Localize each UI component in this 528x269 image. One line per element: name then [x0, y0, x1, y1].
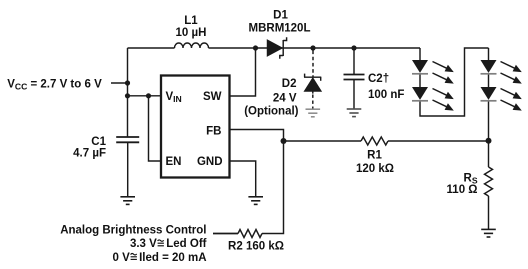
svg-text:GND: GND [197, 156, 223, 168]
LED D4 [412, 87, 428, 101]
resistor RS [485, 167, 493, 196]
node VCC tap [125, 80, 130, 85]
inductor L1 coil [175, 43, 209, 48]
wire FB [230, 130, 284, 142]
ground C1 [120, 197, 135, 205]
zener D2 dashed bottom [312, 91, 314, 94]
diode D1 schottky [268, 37, 287, 59]
node LED/RS junction [486, 138, 492, 144]
svg-text:R2 160 kΩ: R2 160 kΩ [228, 240, 284, 252]
wire C1 to ground [127, 142, 129, 196]
svg-text:L1: L1 [184, 15, 198, 27]
wire C2 top [353, 48, 355, 75]
LED arrows D6 [501, 89, 522, 100]
wire left vertical VCC to C1 [127, 48, 129, 137]
wire C2 to ground [353, 80, 355, 109]
LED arrows D4 [433, 89, 454, 100]
ground C2 (dark gray) [347, 109, 362, 117]
node FB junction [281, 138, 287, 144]
capacitor C2 [344, 75, 365, 80]
wire VCC lead [111, 82, 128, 84]
svg-text:FB: FB [206, 126, 221, 138]
wire top rail left segment [128, 47, 175, 49]
ground D2 (gray) [306, 109, 321, 117]
svg-text:4.7 µF: 4.7 µF [73, 148, 106, 160]
svg-text:EN: EN [166, 156, 182, 168]
resistor R1 [284, 140, 362, 142]
svg-text:C2†: C2† [368, 73, 389, 85]
op IC U1 box [161, 76, 230, 178]
svg-text:D2: D2 [282, 78, 297, 90]
node VIN tap [125, 93, 130, 98]
svg-text:VCC = 2.7 V to 6 V: VCC = 2.7 V to 6 V [7, 78, 102, 91]
svg-text:10 µH: 10 µH [176, 27, 207, 39]
wire SW [230, 48, 256, 96]
svg-text:3.3 V: 3.3 V [130, 238, 157, 250]
ground RS [481, 229, 496, 237]
zener D2 body [304, 74, 321, 91]
LED D5 [481, 60, 497, 74]
resistor R2 [213, 233, 238, 235]
svg-text:110 Ω: 110 Ω [447, 184, 478, 196]
LED D6 [481, 87, 497, 101]
node SW / D1 anode [253, 45, 258, 50]
LED string wiring [419, 48, 421, 61]
svg-text:SW: SW [203, 91, 222, 103]
node D2 tap [310, 45, 315, 50]
approx symbols [158, 240, 164, 246]
svg-text:Iled = 20 mA: Iled = 20 mA [139, 252, 206, 264]
LED arrows D5 [501, 62, 522, 73]
node EN tap [146, 93, 151, 98]
svg-text:Led Off: Led Off [166, 238, 206, 250]
zener D2 dashed top [312, 51, 314, 77]
node C2 tap [351, 45, 356, 50]
svg-text:D1: D1 [273, 10, 288, 22]
LED D3 [412, 60, 428, 74]
wire analog control lead [213, 233, 238, 235]
svg-text:C1: C1 [91, 136, 106, 148]
wire GND pin [230, 161, 256, 197]
svg-text:MBRM120L: MBRM120L [249, 23, 311, 35]
svg-text:Analog Brightness Control: Analog Brightness Control [60, 224, 206, 236]
wire top rail right segment [209, 47, 421, 49]
LED arrows D3 [433, 62, 454, 73]
wire EN branch [149, 96, 162, 161]
wire VIN [128, 95, 162, 97]
svg-text:0 V: 0 V [113, 252, 131, 264]
capacitor C1 [116, 137, 139, 142]
ground GND pin [248, 197, 263, 205]
svg-text:(Optional): (Optional) [244, 106, 298, 118]
svg-text:100 nF: 100 nF [368, 89, 404, 101]
svg-text:120 kΩ: 120 kΩ [356, 163, 394, 175]
svg-text:24 V: 24 V [273, 92, 297, 104]
svg-text:R1: R1 [367, 149, 382, 161]
